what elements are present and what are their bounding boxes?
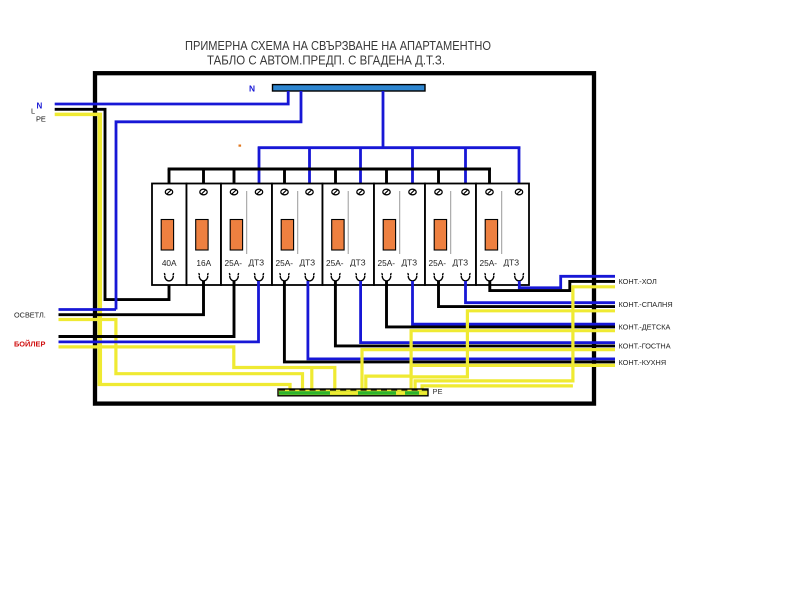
breaker Q1 switch toggle xyxy=(161,220,173,251)
breaker Q3 bottom terminal 2 xyxy=(254,273,264,280)
wire lighting phase from breaker Q2 xyxy=(59,281,204,315)
wire bedroom neutral from breaker Q7 xyxy=(466,281,616,303)
breaker Q8 body xyxy=(476,184,529,286)
svg-text:N: N xyxy=(249,84,255,94)
svg-text:25А-: 25А- xyxy=(326,258,344,268)
svg-text:25А-: 25А- xyxy=(480,258,498,268)
svg-text:ДТЗ: ДТЗ xyxy=(402,257,418,267)
svg-text:КОНТ.-ГОСТНА: КОНТ.-ГОСТНА xyxy=(619,342,671,351)
wire childroom neutral from breaker Q6 xyxy=(413,281,616,324)
wire hall PE down to busbar xyxy=(415,287,615,391)
breaker Q4 bottom terminal 1 xyxy=(279,273,289,281)
svg-text:ДТЗ: ДТЗ xyxy=(350,257,366,267)
breaker Q5 switch toggle xyxy=(332,220,344,251)
breaker Q8 top terminal 1 xyxy=(486,189,493,195)
wire PE stub at x312 xyxy=(310,368,313,392)
breaker Q6 bottom terminal 1 xyxy=(381,273,391,281)
breaker Q3 body xyxy=(221,184,272,286)
breaker Q3 switch toggle xyxy=(230,220,242,251)
wire boiler phase from breaker Q3 xyxy=(59,281,235,337)
wire L tap to breaker 3 xyxy=(233,169,236,190)
breaker Q5 top terminal 1 xyxy=(332,189,339,195)
wire N tap to breaker 7 xyxy=(464,147,467,190)
wire L bus from breaker B1 top feeding all breakers xyxy=(168,168,491,171)
circuit breaker Q1 xyxy=(152,184,187,286)
svg-text:40А: 40А xyxy=(162,258,177,268)
svg-text:25А-: 25А- xyxy=(429,258,447,268)
wire kitchen phase from breaker Q4 xyxy=(284,281,615,362)
wire L tap to breaker 5 xyxy=(334,169,337,190)
svg-text:ОСВЕТЛ.: ОСВЕТЛ. xyxy=(14,311,46,320)
wire L tap to breaker 6 xyxy=(385,169,388,190)
wire L entry to breaker B1 bottom xyxy=(55,109,169,299)
wire PE jog xyxy=(366,376,411,391)
breaker Q4 bottom terminal 2 xyxy=(304,273,314,281)
enclosure panel border xyxy=(95,73,594,403)
svg-text:PE: PE xyxy=(36,115,46,124)
stray orange speck xyxy=(239,145,242,147)
breaker Q7 switch toggle xyxy=(434,220,446,251)
breaker Q5 bottom terminal 1 xyxy=(330,273,340,281)
svg-text:16А: 16А xyxy=(196,258,211,268)
wire L tap to breaker 2 xyxy=(202,169,205,190)
wire bedroom phase from breaker Q7 xyxy=(439,281,616,307)
svg-text:ТАБЛО С АВТОМ.ПРЕДП. С ВГАДЕНА: ТАБЛО С АВТОМ.ПРЕДП. С ВГАДЕНА Д.Т.З. xyxy=(207,53,445,68)
svg-text:ДТЗ: ДТЗ xyxy=(453,257,469,267)
breaker Q5 top terminal 2 xyxy=(357,189,364,195)
svg-text:КОНТ.-КУХНЯ: КОНТ.-КУХНЯ xyxy=(619,358,667,367)
svg-text:L: L xyxy=(31,107,35,116)
breaker Q7 body xyxy=(425,184,476,286)
wire N entry xyxy=(55,91,289,104)
wire boiler PE to busbar xyxy=(59,347,335,391)
breaker Q7 bottom terminal 2 xyxy=(460,273,470,281)
PE busbar xyxy=(278,389,428,396)
breaker Q2 top terminal 1 xyxy=(200,189,207,195)
neutral busbar N xyxy=(273,85,426,91)
breaker Q1 bottom terminal 1 xyxy=(164,273,174,281)
circuit breaker Q6 xyxy=(374,184,425,286)
svg-text:25А-: 25А- xyxy=(378,258,396,268)
wire N tap to breaker 3 xyxy=(258,147,261,190)
breaker Q6 body xyxy=(374,184,425,286)
svg-text:КОНТ.-ХОЛ: КОНТ.-ХОЛ xyxy=(619,277,657,286)
wire boiler neutral from breaker Q3 xyxy=(59,281,259,342)
breaker Q8 pole separator xyxy=(501,191,503,254)
breaker Q7 pole separator xyxy=(450,191,452,254)
svg-text:ДТЗ: ДТЗ xyxy=(504,257,520,267)
circuit breaker Q5 xyxy=(323,184,375,286)
breaker Q7 bottom terminal 1 xyxy=(433,273,443,281)
breaker Q4 body xyxy=(272,184,323,286)
wire livingroom PE to busbar xyxy=(362,350,615,391)
wire livingroom phase from breaker Q5 xyxy=(335,281,615,346)
svg-text:БОЙЛЕР: БОЙЛЕР xyxy=(14,339,45,348)
wire kitchen neutral from breaker Q4 xyxy=(308,281,615,359)
breaker Q2 body xyxy=(187,184,222,286)
breaker Q8 bottom terminal 1 xyxy=(484,273,494,281)
breaker Q6 top terminal 2 xyxy=(409,189,416,195)
svg-text:N: N xyxy=(37,102,43,111)
svg-text:КОНТ.-ДЕТСКА: КОНТ.-ДЕТСКА xyxy=(619,323,671,332)
breaker Q6 pole separator xyxy=(399,191,401,254)
wire N tap to breaker 6 xyxy=(411,147,414,190)
circuit breaker Q4 xyxy=(272,184,323,286)
breaker Q4 pole separator xyxy=(297,191,299,254)
wire L tap to breaker 8 xyxy=(488,169,491,190)
breaker Q6 switch toggle xyxy=(383,220,395,251)
wire bedroom PE xyxy=(412,311,615,377)
wire livingroom neutral from breaker Q5 xyxy=(361,281,615,343)
breaker Q7 top terminal 1 xyxy=(435,189,442,195)
breaker Q4 switch toggle xyxy=(281,220,293,251)
wire childroom PE with jog to busbar xyxy=(411,331,615,391)
breaker Q8 bottom terminal 2 xyxy=(514,273,524,281)
wire PE lower run xyxy=(422,386,573,391)
wire N distribution line with taps xyxy=(258,146,521,149)
svg-text:ДТЗ: ДТЗ xyxy=(300,257,316,267)
wire kitchen PE xyxy=(411,364,615,367)
wire N busbar tap to lighting circuit xyxy=(116,91,301,310)
wire PE entry to PE busbar xyxy=(55,113,102,117)
wire lighting PE to busbar xyxy=(59,320,303,392)
breaker Q1 top terminal 1 xyxy=(165,189,172,195)
wire hall phase from breaker Q8 xyxy=(490,281,615,291)
breaker Q7 top terminal 2 xyxy=(462,189,469,195)
breaker Q6 top terminal 1 xyxy=(383,189,390,195)
svg-text:PE: PE xyxy=(433,387,443,396)
breaker Q3 pole separator xyxy=(246,191,248,254)
breaker Q5 body xyxy=(323,184,375,286)
wire L tap to breaker 4 xyxy=(283,169,286,190)
wire N tap to breaker 5 xyxy=(359,147,362,190)
circuit breaker Q2 xyxy=(187,184,222,286)
breaker Q3 top terminal 1 xyxy=(230,189,237,195)
breaker Q8 switch toggle xyxy=(485,220,497,251)
svg-text:ПРИМЕРНА СХЕМА НА СВЪРЗВАНЕ НА: ПРИМЕРНА СХЕМА НА СВЪРЗВАНЕ НА АПАРТАМЕН… xyxy=(185,38,491,53)
breaker Q1 body xyxy=(152,184,187,286)
breaker Q8 top terminal 2 xyxy=(515,189,522,195)
svg-text:25А-: 25А- xyxy=(225,258,243,268)
breaker Q3 bottom terminal 1 xyxy=(229,273,239,281)
wire N tap to breaker 8 xyxy=(518,147,521,190)
svg-text:ДТЗ: ДТЗ xyxy=(249,257,265,267)
breaker Q4 top terminal 2 xyxy=(306,189,313,195)
breaker Q6 bottom terminal 2 xyxy=(407,273,417,281)
wire hall neutral from breaker Q8 xyxy=(519,276,615,288)
breaker Q4 top terminal 1 xyxy=(281,189,288,195)
wire lighting neutral (blue to OSVETL) xyxy=(59,308,117,311)
breaker Q5 bottom terminal 2 xyxy=(355,273,365,281)
wire N tap to breaker 4 xyxy=(308,147,311,190)
breaker Q3 top terminal 2 xyxy=(255,189,262,195)
svg-text:25А-: 25А- xyxy=(276,258,294,268)
circuit breaker Q7 xyxy=(425,184,476,286)
wire L tap to breaker 1 xyxy=(168,169,171,190)
svg-text:КОНТ.-СПАЛНЯ: КОНТ.-СПАЛНЯ xyxy=(619,300,673,309)
breaker Q2 bottom terminal 1 xyxy=(198,273,208,281)
wire L tap to breaker 7 xyxy=(437,169,440,190)
breaker Q5 pole separator xyxy=(347,191,349,254)
wire N busbar to distribution line xyxy=(382,91,385,148)
circuit breaker Q3 xyxy=(221,184,272,286)
wire childroom phase from breaker Q6 xyxy=(387,281,616,327)
breaker Q2 switch toggle xyxy=(196,220,208,251)
circuit breaker Q8 xyxy=(476,184,529,286)
